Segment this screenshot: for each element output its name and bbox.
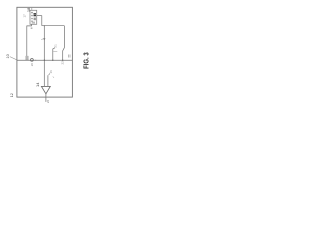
lamp circle on bus (31, 59, 34, 62)
faint tick near label 16 (53, 76, 54, 78)
amplifier triangle 14 (41, 86, 50, 93)
capacitor bars on left drop (26, 56, 28, 60)
svg-text:18: 18 (26, 7, 31, 12)
wire block bottom to left drop (27, 24, 32, 56)
horizontal wire at y26 (42, 25, 65, 27)
svg-text:26: 26 (46, 100, 50, 104)
tick left of arrowhead (41, 38, 43, 41)
armature (dark element) in block 18 (34, 13, 37, 16)
amplifier output wire (45, 94, 47, 102)
svg-text:14: 14 (35, 82, 40, 87)
svg-text:20: 20 (30, 63, 34, 67)
arrowhead on input 16 (48, 72, 50, 75)
dashed contact column in block 18 (31, 12, 33, 23)
svg-text:FIG. 3: FIG. 3 (84, 52, 91, 69)
wire center vertical to amplifier (43, 26, 45, 87)
component ticks near right edge (69, 55, 71, 58)
svg-text:17: 17 (23, 14, 27, 18)
junction dot right (62, 60, 63, 61)
contact tick of switch (53, 51, 57, 53)
junction dot left of center (35, 60, 36, 61)
arrowhead on center wire (43, 38, 45, 41)
svg-text:12: 12 (10, 93, 14, 97)
bottom marks in block 18 (32, 22, 35, 24)
svg-text:16: 16 (49, 70, 53, 74)
switch branch with jog (53, 48, 55, 61)
wire block right to riser (37, 15, 42, 17)
faint mark below block corner (31, 27, 33, 29)
junction dot switch branch (52, 60, 53, 61)
wire input 16 to amplifier (47, 75, 49, 86)
frame border of circuit 10 (17, 7, 73, 97)
lower coil marks in block 18 (34, 18, 36, 21)
block 18 (pickup unit) (30, 10, 37, 24)
svg-text:21: 21 (53, 44, 57, 48)
wire riser right of block (41, 16, 43, 26)
bus line (17, 59, 73, 61)
junction dot at wire corner (44, 25, 45, 26)
stub from block 18 to top frame (31, 7, 33, 10)
junction dot center (44, 60, 45, 61)
svg-text:22: 22 (60, 61, 64, 65)
wire down right side (63, 26, 65, 48)
switch jog right (63, 48, 65, 61)
leader line for 10 (10, 57, 17, 60)
svg-text:10: 10 (6, 54, 10, 58)
contact dots inside block 18 (31, 12, 32, 22)
